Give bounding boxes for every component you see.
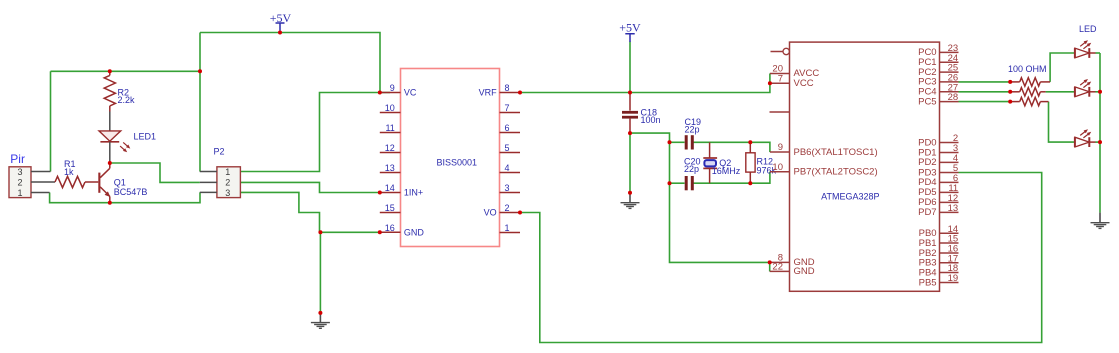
ATMEGA pin 22 GND [770,262,815,278]
resistor 100 OHM (middle, to PC4) [1010,88,1045,96]
junction C19 left [668,140,672,144]
svg-text:PC5: PC5 [918,96,936,107]
junction +5V symbol1 [278,31,282,35]
ATMEGA pin 3 PD1 [918,143,958,158]
svg-text:100n: 100n [641,115,661,125]
svg-text:9: 9 [390,83,395,93]
wire Pir pin3 riser [50,71,52,171]
svg-text:GND: GND [404,228,425,238]
wire GND pin22 jog [769,262,771,271]
junction Q1 emitter [108,201,112,205]
junction ground1 top [318,311,322,315]
wire +5V rail down to P2 pin1 [199,33,201,172]
ATMEGA pin 18 PB4 [919,263,959,278]
wire Pir pin1 / Q1 emitter to P2 pin3 [50,192,200,202]
svg-text:VC: VC [404,88,417,98]
ATMEGA pin 15 PB1 [919,234,959,249]
junction LED B cathode [1098,90,1102,94]
junction C20 left [668,181,672,185]
ATMEGA pin 9 PB6 [770,142,878,158]
BISS pin 2 VO [484,203,520,218]
wire P2 pin1 to BISS VC [241,93,391,172]
svg-text:2: 2 [505,203,510,213]
svg-text:4: 4 [505,163,510,173]
svg-text:1IN+: 1IN+ [404,188,423,198]
BISS pin 16 GND [380,223,425,238]
op-amp/IC U1 BISS0001 [401,69,500,247]
ATMEGA pin 13 PD7 [918,203,958,218]
svg-text:1: 1 [225,167,230,177]
svg-text:Pir: Pir [10,152,25,166]
svg-text:15: 15 [385,203,395,213]
wire C19 left [670,141,685,143]
svg-text:14: 14 [385,183,395,193]
ground symbol 2 (under C18) [621,193,640,209]
ATMEGA pin 24 PC1 [918,53,958,68]
resistor R12 [746,142,777,183]
transistor Q1 [98,142,147,203]
svg-text:10: 10 [385,103,395,113]
resistor R2 [104,71,135,111]
svg-text:13: 13 [948,203,959,214]
svg-text:11: 11 [385,123,394,133]
junction BISS VC pin9 [378,91,382,95]
junction resistor1 left [1008,80,1012,84]
junction Q1 collector [108,161,112,165]
svg-text:Q1: Q1 [114,177,126,187]
resistor 100 OHM (bottom, to PC5) [1010,97,1048,105]
ATMEGA pin 2 PD0 [918,133,958,148]
ATMEGA pin 5 PD3 [918,163,958,178]
wire C18 node to caps/GND pins [630,133,770,262]
wire Q1 collector to P2 pin2 [110,163,200,182]
resistor R1 [55,159,98,188]
capacitor C20 [684,156,701,190]
svg-text:3: 3 [505,183,510,193]
junction BISS pin14 [378,191,382,195]
svg-text:12: 12 [385,143,395,153]
wire resistor1 to LED A [1050,53,1075,82]
BISS pin 5 [500,143,521,153]
svg-text:28: 28 [948,92,959,103]
BISS pin 9 VC [380,83,417,98]
wire PC3 to resistor1 [959,81,1011,83]
BISS pin 1 [500,223,521,233]
svg-text:1: 1 [17,188,22,198]
junction VRF stub [518,91,522,95]
svg-text:2: 2 [225,177,230,187]
junction LED C cathode [1098,140,1102,144]
junction BISS pin16 [378,230,382,234]
svg-text:VO: VO [484,208,497,218]
svg-text:6: 6 [505,123,510,133]
junction R12 bottom [748,181,752,185]
wire LED C cathode [1096,141,1101,143]
svg-text:PB7(XTAL2TOSC2): PB7(XTAL2TOSC2) [794,167,878,178]
svg-text:ATMEGA328P: ATMEGA328P [821,191,879,201]
LED B (middle right) [1075,79,1096,97]
ATMEGA pin 6 PD4 [918,173,958,188]
junction +5V symbol2 [628,91,632,95]
wire GND node to ground1 [319,232,321,313]
junction C18 bottom [628,131,632,135]
svg-text:3: 3 [225,188,230,198]
BISS pin 11 [380,123,401,133]
wire VRF to VCC/AVCC [520,74,770,93]
LED C (bottom right) [1075,129,1096,147]
svg-text:7: 7 [778,73,783,84]
svg-text:PB5: PB5 [919,277,937,288]
BISS pin 10 [380,103,401,113]
ATMEGA pin 20 AVCC [770,64,819,80]
ground symbol 3 (under LEDs) [1091,213,1110,229]
wire C18 bottom to ground2 [629,133,631,193]
wire XTAL2 net [694,172,770,183]
capacitor C18 [622,93,661,134]
wire LED cathode rail [1099,53,1101,213]
svg-text:1: 1 [505,223,510,233]
ATMEGA pin 8 GND [770,253,815,269]
junction resistor3 left [1008,100,1012,104]
BISS pin 8 VRF [479,83,520,98]
BISS pin 4 [500,163,521,173]
svg-text:3: 3 [17,167,22,177]
ATMEGA pin 16 PB2 [919,244,959,259]
connector Pir [9,152,55,198]
junction resistor2 left [1008,90,1012,94]
wire VO to PD3 [520,173,1042,343]
BISS pin 6 [500,123,521,133]
wire +5V symbol2 drop [629,42,631,93]
wire XTAL1 net [694,142,770,152]
svg-text:16MHz: 16MHz [712,166,741,176]
svg-text:GND: GND [794,266,815,277]
junction R12 top [748,140,752,144]
svg-text:9: 9 [778,142,783,153]
svg-text:13: 13 [385,163,395,173]
svg-text:22: 22 [772,262,783,273]
connector P2 [200,146,241,198]
svg-text:BC547B: BC547B [114,187,148,197]
BISS pin 12 [380,143,401,153]
LED LED1 [99,112,156,153]
ATMEGA pin 4 PD2 [918,153,958,168]
svg-text:LED: LED [1079,24,1097,34]
ATMEGA pin 19 PB5 [919,273,959,288]
power +5V symbol 1 [270,11,292,31]
junction +5V rail x200 [198,69,202,73]
svg-text:VRF: VRF [479,88,498,98]
junction GND pin8 [768,260,772,264]
junction ground2 top [628,191,632,195]
wire resistor3 to LED C [1049,102,1075,143]
ATMEGA pin 21 AREF (unlabeled stub) [770,111,790,113]
BISS pin 13 [380,163,401,173]
svg-text:16: 16 [385,223,395,233]
junction GND node x320 [318,230,322,234]
svg-text:7: 7 [505,103,510,113]
ATMEGA pin 12 PD6 [918,193,958,208]
wire GND node to BISS pin16 [320,231,379,233]
svg-text:19: 19 [948,273,959,284]
svg-text:8: 8 [505,83,510,93]
ATMEGA pin 23 PC0 [918,43,958,58]
ATMEGA pin 25 PC2 [918,63,958,78]
svg-text:+5V: +5V [619,20,641,34]
capacitor C19 [685,117,702,150]
svg-text:10: 10 [772,162,783,173]
ATMEGA pin 11 PD5 [918,183,958,198]
resistor 100 OHM (top, to PC3) [1008,64,1050,86]
svg-text:100 OHM: 100 OHM [1008,64,1047,74]
wire P2 pin2 to BISS 1IN+ [241,182,380,192]
BISS pin 14 1IN+ [380,183,423,198]
svg-text:PD7: PD7 [918,207,936,218]
wire P2 pin3 to GND node [241,192,320,232]
junction R2 top [108,69,112,73]
power +5V symbol 2 [619,20,641,42]
svg-text:P2: P2 [214,146,225,156]
junction VCC pin7 [768,81,772,85]
wire LED B cathode [1096,91,1101,93]
wire +5V branch to R2/Pir [51,70,201,72]
ATMEGA pin 27 PC4 [918,82,958,97]
wire resistor2 to LED B [1046,91,1075,93]
svg-text:LED1: LED1 [134,132,157,142]
crystal Q2 [703,142,741,183]
BISS pin 15 [380,203,401,213]
ATMEGA pin 14 PB0 [919,224,959,239]
ATMEGA pin 28 PC5 [918,92,958,107]
wire +5V top rail [200,33,380,93]
svg-text:1k: 1k [64,167,74,177]
svg-text:2.2k: 2.2k [118,95,136,105]
svg-text:2: 2 [17,177,22,187]
junction VO pin2 [518,211,522,215]
IC U2 ATMEGA328P [790,42,940,291]
svg-text:BISS0001: BISS0001 [437,158,478,168]
wire PC4 to resistor2 [959,91,1011,93]
ATMEGA pin 7 VCC [770,73,814,89]
BISS pin 7 [500,103,521,113]
wire PC5 to resistor3 [959,101,1011,103]
ATMEGA pin 10 PB7 [770,162,878,178]
BISS pin 3 [500,183,521,193]
svg-text:+5V: +5V [270,11,292,25]
ATMEGA pin PC6/RESET (bubble) [771,48,790,54]
LED A (top right) [1075,24,1097,58]
svg-text:5: 5 [505,143,510,153]
ground symbol 1 (under P2/BISS GND) [311,313,330,328]
svg-text:22p: 22p [685,125,700,135]
ATMEGA pin 17 PB3 [919,253,959,268]
wire C20 left [670,182,685,184]
svg-text:VCC: VCC [794,78,814,89]
ATMEGA pin 26 PC3 [918,73,958,88]
svg-text:PB6(XTAL1TOSC1): PB6(XTAL1TOSC1) [794,147,878,158]
svg-text:22p: 22p [684,164,699,174]
wire LED A cathode [1096,52,1101,54]
